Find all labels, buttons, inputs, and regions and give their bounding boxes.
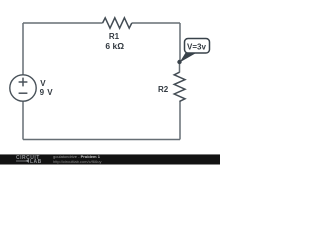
watermark bar — [0, 155, 220, 165]
svg-text:R2: R2 — [158, 85, 169, 94]
svg-text:6 kΩ: 6 kΩ — [105, 41, 124, 51]
node A (junction dot on right wire) — [177, 60, 181, 64]
resistor R2 (vertical zigzag body) — [174, 72, 185, 101]
svg-text:http://circuitlab.com/c/f66uy: http://circuitlab.com/c/f66uy — [53, 159, 101, 164]
annotation callout box V=3v — [185, 39, 210, 54]
voltage source minus sign — [19, 92, 28, 94]
svg-text:V: V — [40, 79, 46, 88]
voltage source V1 (circle) — [10, 75, 36, 101]
svg-text:V=3v: V=3v — [187, 43, 206, 52]
svg-text:9 V: 9 V — [40, 88, 54, 97]
wire left (source bottom down to bottom-left corner) — [22, 101, 24, 140]
wire top (right segment from R1 to top-right corner) — [132, 22, 180, 24]
voltage source plus sign — [19, 78, 28, 87]
svg-text:R1: R1 — [109, 32, 120, 41]
wire right (top-right corner down to node) — [179, 23, 181, 62]
wire left (top-left corner down to source top) — [22, 23, 24, 75]
annotation callout tail (wedge from node to box) — [180, 52, 198, 63]
watermark CircuitLab logo line and arrow — [16, 160, 29, 163]
wire top (left segment from top-left corner to R1) — [23, 22, 103, 24]
svg-text:LAB: LAB — [30, 159, 42, 165]
wire right (R2 bottom to bottom-right corner) — [179, 101, 181, 140]
resistor R1 (zigzag body) — [103, 18, 132, 28]
wire bottom — [23, 139, 180, 141]
wire right (node down to R2 top) — [179, 62, 181, 73]
